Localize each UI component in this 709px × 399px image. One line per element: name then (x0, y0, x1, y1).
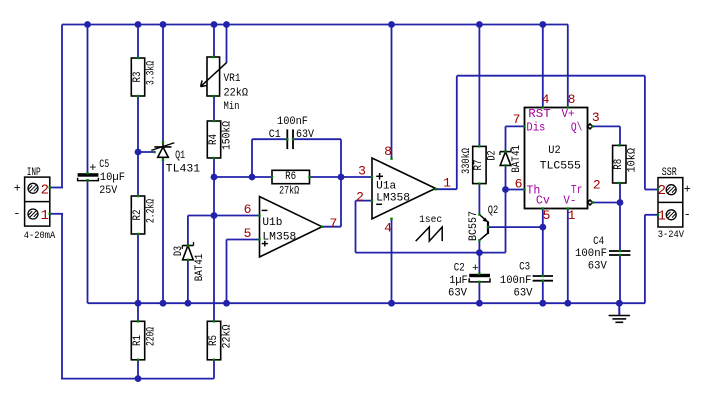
op-amp U1b LM358 (258, 197, 323, 258)
wire SSR pin1 drop (644, 215, 646, 303)
resistor R1 (131, 320, 157, 361)
wire left rail lower (61, 214, 63, 379)
wire C1 left (252, 138, 287, 140)
svg-text:63V: 63V (514, 287, 533, 299)
svg-text:6: 6 (244, 202, 252, 217)
wire U2 Q out (593, 125, 621, 127)
pin number U2-4 (542, 92, 550, 107)
svg-text:R1: R1 (132, 335, 144, 346)
wire C1 right (293, 138, 341, 140)
svg-text:U1a: U1a (376, 181, 396, 193)
svg-text:5: 5 (244, 226, 252, 241)
pin number U2-8 (568, 92, 576, 107)
svg-text:220Ω: 220Ω (145, 327, 157, 346)
svg-text:TL431: TL431 (166, 164, 201, 176)
capacitor C5 (78, 159, 125, 197)
wire C3 bottom (542, 281, 544, 303)
pin number U1a-1 (443, 176, 451, 191)
wire SSR pin2 drop (644, 76, 646, 190)
wire Dis to D2 (505, 126, 507, 151)
svg-text:LM358: LM358 (262, 232, 296, 244)
svg-text:7: 7 (513, 112, 521, 127)
svg-text:100nF: 100nF (277, 116, 308, 128)
pin inversion circle U2-3 (588, 124, 594, 129)
connector INP (13, 167, 55, 242)
annotation 1sec sawtooth (416, 215, 443, 241)
wire R4 bottom chain (213, 158, 215, 321)
trimmer VR1 (201, 56, 249, 113)
resistor R6 (271, 170, 311, 197)
svg-text:1sec: 1sec (419, 215, 442, 226)
wire C1 right drop / U1b out (340, 139, 342, 227)
svg-text:10kΩ: 10kΩ (627, 148, 639, 173)
junction (617, 199, 624, 206)
junction (539, 300, 546, 307)
wire SSR pin1 stub (645, 214, 658, 216)
wire Q2 base to Cv (488, 226, 543, 228)
svg-text:R3: R3 (132, 72, 144, 83)
wire bottom rail (61, 378, 214, 380)
pin number U2-2 (593, 178, 601, 193)
pin number U1b-5 (244, 226, 252, 241)
pin number SSR-2 (658, 183, 666, 199)
svg-text:Dis: Dis (526, 120, 545, 134)
svg-text:VR1: VR1 (224, 73, 241, 85)
wire U1b pin5 drop (226, 240, 228, 304)
svg-text:BC557: BC557 (468, 211, 480, 241)
svg-text:R6: R6 (285, 171, 296, 183)
wire left rail upper (61, 25, 63, 188)
svg-text:8: 8 (384, 144, 392, 159)
wire U1a out up (456, 76, 458, 190)
wire U1a pin2 stub (356, 200, 373, 202)
svg-text:U1b: U1b (262, 217, 282, 229)
pin number U1b-6 (244, 202, 252, 217)
wire U1a pin2 drop (355, 201, 357, 253)
junction (338, 174, 345, 181)
svg-text:22kΩ: 22kΩ (221, 324, 233, 348)
junction (211, 174, 218, 181)
connector SSR (657, 167, 691, 241)
junction (388, 300, 395, 307)
svg-text:27kΩ: 27kΩ (279, 185, 299, 197)
junction (476, 300, 483, 307)
svg-text:LM358: LM358 (376, 193, 410, 205)
resistor R8 (613, 144, 639, 184)
junction (185, 300, 192, 307)
IC U2 TLC555 (523, 106, 587, 209)
svg-text:3-24V: 3-24V (658, 230, 684, 241)
junction (135, 21, 142, 28)
svg-text:5: 5 (543, 208, 551, 223)
svg-text:22kΩ: 22kΩ (224, 88, 249, 100)
svg-text:D3: D3 (173, 246, 185, 256)
svg-text:BAT41: BAT41 (511, 145, 523, 173)
transistor Q2 BC557 (468, 205, 498, 242)
wire D3 top (187, 216, 189, 246)
junction (476, 249, 483, 256)
svg-text:1: 1 (658, 208, 666, 224)
wire V+ top rail (62, 24, 568, 26)
svg-text:TLC555: TLC555 (540, 160, 581, 172)
wire R7 to Q2 emitter (478, 184, 480, 215)
wire ground rail (88, 302, 646, 304)
svg-text:Min: Min (224, 101, 240, 113)
wire C4 bottom (619, 255, 621, 303)
svg-text:Cv: Cv (536, 194, 550, 208)
pin number INP-1 (41, 208, 49, 224)
junction (211, 21, 218, 28)
svg-text:100nF: 100nF (500, 275, 532, 287)
wire INP pin1 stub (50, 213, 63, 215)
junction (211, 212, 218, 219)
svg-text:4: 4 (384, 221, 392, 236)
svg-text:Q2: Q2 (488, 205, 499, 217)
svg-text:INP: INP (27, 167, 41, 179)
svg-text:150kΩ: 150kΩ (221, 121, 233, 150)
junction (539, 21, 546, 28)
svg-text:-: - (13, 207, 20, 221)
pin number U2-3 (592, 110, 600, 125)
svg-text:1: 1 (568, 208, 576, 223)
wire C1 left drop (251, 139, 253, 177)
svg-text:63V: 63V (588, 261, 607, 273)
svg-text:1µF: 1µF (449, 275, 468, 287)
svg-text:RST: RST (528, 107, 551, 121)
svg-text:1: 1 (41, 208, 49, 224)
svg-text:2: 2 (356, 189, 364, 204)
wire Q1 cathode (162, 25, 164, 143)
junction (502, 186, 509, 193)
wire R8 to Tr node (619, 183, 621, 203)
wire R3-R2 (137, 96, 139, 196)
svg-text:R7: R7 (473, 160, 485, 171)
resistor R7 (461, 145, 486, 185)
junction (84, 21, 91, 28)
op-amp U1a LM358 (371, 157, 437, 220)
svg-text:100nF: 100nF (575, 248, 607, 260)
junction (160, 21, 167, 28)
svg-text:4: 4 (542, 92, 550, 107)
svg-text:330kΩ: 330kΩ (461, 148, 473, 174)
junction (223, 21, 230, 28)
wire U2 Th (506, 189, 525, 191)
pin number INP-2 (41, 182, 49, 198)
svg-text:+: + (14, 182, 21, 196)
svg-text:2.2kΩ: 2.2kΩ (145, 199, 157, 223)
transistor Q1 TL431 (151, 141, 200, 176)
svg-text:C3: C3 (519, 261, 530, 273)
svg-text:6: 6 (515, 177, 523, 192)
svg-text:V+: V+ (562, 107, 575, 121)
svg-text:63V: 63V (448, 287, 467, 299)
svg-text:3: 3 (592, 110, 600, 125)
resistor R5 (207, 320, 233, 361)
wire VR1-R4 (213, 96, 215, 121)
pin number U2-7 (513, 112, 521, 127)
wire D2 anode to node (505, 165, 507, 252)
wire U1b pin5 (227, 239, 260, 241)
svg-text:C2: C2 (454, 263, 465, 275)
wire TL431 ref (138, 151, 155, 153)
junction (135, 300, 142, 307)
wire Q2 collector drop (478, 240, 480, 252)
wire U1a pin4 (391, 219, 393, 303)
resistor R3 (131, 57, 157, 97)
wire R6 right to U1a pin3 (310, 176, 373, 178)
capacitor C3 (500, 261, 553, 299)
svg-text:+: + (684, 182, 691, 196)
wire Tr node to C4 (619, 203, 621, 252)
svg-text:C1: C1 (269, 129, 281, 141)
svg-text:R8: R8 (613, 159, 625, 170)
junction (135, 149, 142, 156)
svg-text:V-: V- (563, 194, 576, 208)
svg-text:R5: R5 (208, 335, 220, 346)
svg-text:C4: C4 (593, 236, 604, 248)
ground symbol (609, 303, 630, 322)
pin number U1a-8 (384, 144, 392, 159)
svg-text:2: 2 (41, 182, 49, 198)
junction (135, 375, 142, 382)
diode D2 BAT41 (487, 145, 524, 173)
junction (564, 300, 571, 307)
capacitor C2 (448, 263, 490, 300)
svg-text:2: 2 (593, 178, 601, 193)
wire feedback horizontal (356, 252, 506, 254)
svg-text:D2: D2 (487, 151, 499, 161)
wire U2 Dis (506, 125, 525, 127)
junction (160, 300, 167, 307)
wire U1a output stub (436, 188, 457, 190)
pin number U2-5 (543, 208, 551, 223)
wire R1 top (137, 303, 139, 321)
diode D3 BAT41 (173, 242, 206, 281)
wire U2 Tr (593, 202, 621, 204)
pin number U1b-7 (329, 216, 337, 231)
wire U2 pin1 (567, 209, 569, 304)
svg-text:10µF: 10µF (100, 172, 125, 184)
wire VR1 wiper stub (226, 25, 228, 63)
svg-text:R4: R4 (208, 134, 220, 145)
wire Q out to R8 (619, 126, 621, 145)
svg-text:BAT41: BAT41 (194, 253, 206, 281)
svg-text:C5: C5 (99, 159, 109, 171)
svg-text:SSR: SSR (662, 167, 677, 179)
wire R2 bottom (137, 234, 139, 303)
pin number SSR-1 (658, 208, 666, 224)
wire U2 pin8 (567, 25, 569, 108)
svg-text:8: 8 (568, 92, 576, 107)
svg-text:1: 1 (443, 176, 451, 191)
svg-text:2: 2 (658, 183, 666, 199)
wire R7 top (478, 25, 480, 147)
svg-text:63V: 63V (296, 129, 314, 141)
wire C2 top (478, 253, 480, 274)
wire R3 top (137, 25, 139, 59)
wire C2 bottom (478, 282, 480, 303)
wire C5 top (87, 25, 89, 174)
wire D3 bottom (187, 260, 189, 303)
svg-text:Q\: Q\ (571, 120, 583, 134)
svg-text:25V: 25V (99, 185, 117, 197)
junction (476, 21, 483, 28)
wire VR1 top (213, 25, 215, 58)
pin number U2-1 (568, 208, 576, 223)
wire output top run (457, 75, 645, 77)
wire U1a pin8 (391, 25, 393, 159)
resistor R4 (207, 120, 233, 159)
wire INP pin2 stub (50, 187, 63, 189)
svg-text:+: + (89, 161, 96, 175)
wire R6 left node (214, 176, 272, 178)
pin inversion circle U2-2 (588, 200, 594, 205)
svg-text:-: - (684, 208, 691, 222)
wire C5 bottom (87, 180, 89, 303)
svg-text:4-20mA: 4-20mA (24, 231, 55, 242)
junction (249, 174, 256, 181)
capacitor C4 (575, 236, 630, 272)
junction (616, 300, 623, 307)
junction (388, 21, 395, 28)
svg-text:R2: R2 (132, 210, 144, 221)
pin number U1a-3 (358, 164, 366, 179)
wire U1b pin6 (188, 215, 260, 217)
junction (223, 300, 230, 307)
svg-text:3.3kΩ: 3.3kΩ (145, 61, 157, 85)
pin number U2-6 (515, 177, 523, 192)
wire Q1 anode (162, 160, 164, 303)
svg-text:3: 3 (358, 164, 366, 179)
capacitor C1 (269, 116, 315, 149)
pin number U1a-4 (384, 221, 392, 236)
wire U2 pin5 to C3 (542, 209, 544, 277)
svg-text:7: 7 (329, 216, 337, 231)
svg-text:Q1: Q1 (175, 150, 185, 162)
svg-text:U2: U2 (548, 145, 560, 157)
wire R1 bottom (137, 360, 139, 379)
wire U1b output (322, 226, 342, 228)
wire SSR pin2 stub (645, 189, 658, 191)
svg-text:+: + (472, 263, 479, 275)
resistor R2 (131, 195, 157, 235)
pin number U1a-2 (356, 189, 364, 204)
wire U2 pin4 (542, 25, 544, 108)
junction (539, 224, 546, 231)
wire R5 bottom (213, 360, 215, 379)
